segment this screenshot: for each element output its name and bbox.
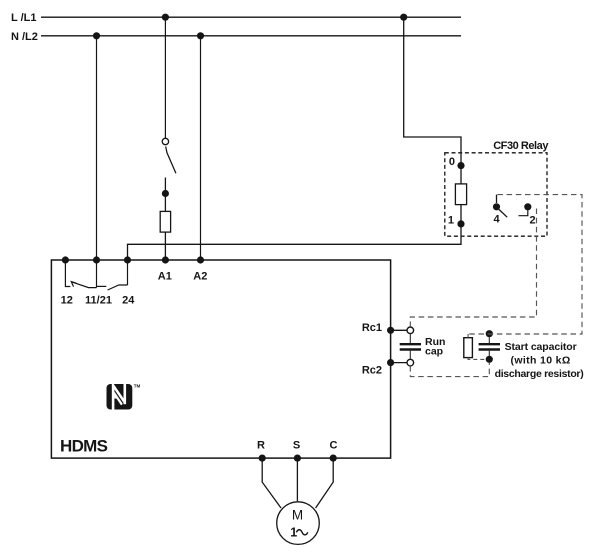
- svg-text:M: M: [292, 508, 303, 523]
- relay contact 2 fixed stub: [519, 210, 528, 216]
- CF30 relay enclosure (dashed): [445, 153, 547, 236]
- relay contact blade 4: [499, 209, 507, 217]
- dashed link contact4 to start cap top: [466, 195, 582, 334]
- motor sine symbol: [296, 530, 307, 535]
- internal contact arrowhead: [71, 282, 76, 287]
- start capacitor bottom terminal: [486, 356, 493, 363]
- svg-text:Rc1: Rc1: [362, 322, 382, 334]
- svg-text:0: 0: [449, 156, 455, 168]
- internal contact stub from 11/21: [96, 260, 98, 288]
- junction on L/L1 at x=165: [162, 14, 169, 21]
- svg-text:CF30 Relay: CF30 Relay: [493, 140, 549, 152]
- internal contact fixed line from 11/21: [97, 285, 107, 287]
- wire through fuse F1: [164, 194, 166, 261]
- junction on L/L1 at x=404: [400, 14, 407, 21]
- run capacitor C1 top lead: [409, 334, 411, 344]
- terminal S: [294, 455, 301, 462]
- relay contact terminal 2: [524, 203, 531, 210]
- terminal 11/21: [93, 256, 100, 263]
- dashed link contact2 to Rc1: [410, 209, 536, 327]
- svg-text:C: C: [330, 439, 338, 451]
- relay coil K1: [455, 184, 466, 205]
- wire L/L1 rail: [41, 16, 461, 18]
- NFC logo mark: [107, 383, 141, 411]
- run cap bottom connector: [407, 359, 414, 366]
- svg-text:Start capacitor: Start capacitor: [505, 341, 577, 353]
- relay coil terminal 0: [457, 162, 464, 169]
- run capacitor C1 plates: [400, 343, 421, 345]
- wire Rc2 to run cap: [391, 362, 407, 364]
- wire N/L2 rail: [41, 35, 461, 37]
- switch S1 pivot: [162, 138, 168, 144]
- wire S to motor: [296, 458, 298, 501]
- terminal R: [259, 455, 266, 462]
- discharge resistor R1: [464, 338, 473, 358]
- start capacitor top lead: [488, 337, 490, 343]
- wire switch to fuse node: [164, 178, 166, 194]
- motor M1 body: [277, 502, 320, 545]
- wire N/L2 to terminal A2: [200, 36, 202, 260]
- svg-text:1: 1: [448, 215, 454, 227]
- relay coil terminal 1: [457, 220, 464, 227]
- svg-text:11/21: 11/21: [85, 294, 112, 306]
- dashed resistor top stub: [467, 334, 469, 338]
- relay contact terminal 4: [493, 203, 500, 210]
- svg-text:Rc2: Rc2: [362, 365, 382, 377]
- internal contact stub from 12: [65, 260, 70, 287]
- terminal Rc1: [387, 327, 394, 334]
- svg-text:1: 1: [290, 525, 297, 539]
- junction above fuse: [162, 190, 169, 197]
- svg-text:cap: cap: [425, 345, 443, 357]
- wire Rc1 to run cap: [391, 329, 407, 331]
- svg-text:12: 12: [61, 294, 73, 306]
- switch S1 blade: [166, 147, 176, 174]
- svg-text:S: S: [293, 439, 300, 451]
- terminal Rc2: [387, 359, 394, 366]
- svg-text:A2: A2: [193, 271, 207, 283]
- svg-text:A1: A1: [158, 271, 172, 283]
- wire stub above relay contact 4: [496, 195, 498, 203]
- wire relay terminal 1 to terminal 24: [128, 224, 462, 260]
- svg-text:HDMS: HDMS: [60, 437, 108, 456]
- wire N/L2 to terminal 11/21: [96, 36, 98, 260]
- start capacitor bottom lead: [488, 351, 490, 356]
- wire C to motor: [316, 458, 334, 508]
- wire L/L1 to switch: [164, 17, 166, 138]
- svg-text:L /L1: L /L1: [11, 12, 36, 24]
- terminal C: [330, 455, 337, 462]
- terminal A2: [197, 256, 204, 263]
- svg-text:(with 10 kΩ: (with 10 kΩ: [511, 354, 571, 366]
- svg-text:24: 24: [122, 294, 135, 306]
- svg-text:TM: TM: [134, 383, 141, 388]
- dashed resistor bottom stub: [468, 358, 486, 360]
- junction on N/L2 at x=200: [197, 32, 204, 39]
- svg-text:4: 4: [493, 213, 500, 225]
- svg-text:2: 2: [530, 214, 536, 226]
- terminal A1: [162, 256, 169, 263]
- svg-text:discharge resistor): discharge resistor): [495, 368, 584, 380]
- svg-text:R: R: [257, 439, 265, 451]
- wire terminal 0 to coil: [460, 166, 462, 184]
- terminal 12: [62, 256, 69, 263]
- fuse F1: [160, 211, 170, 232]
- run capacitor C1 bottom lead: [409, 351, 411, 360]
- start capacitor top terminal: [486, 330, 493, 337]
- junction on N/L2 at x=96: [93, 32, 100, 39]
- terminal 24: [124, 256, 131, 263]
- internal contact blade 12-11/21: [72, 282, 97, 288]
- internal contact open blade to 24: [108, 285, 128, 290]
- dashed link Rc2 to start cap bottom: [410, 363, 489, 377]
- wire L/L1 to relay coil terminal 0: [404, 17, 461, 162]
- run cap top connector: [407, 327, 414, 334]
- HDMS device outline: [51, 260, 390, 458]
- wire coil to terminal 1: [460, 205, 462, 224]
- internal contact stub from 24: [127, 260, 129, 285]
- svg-text:N /L2: N /L2: [11, 31, 38, 43]
- start capacitor plates: [479, 343, 500, 345]
- wire R to motor: [262, 458, 281, 508]
